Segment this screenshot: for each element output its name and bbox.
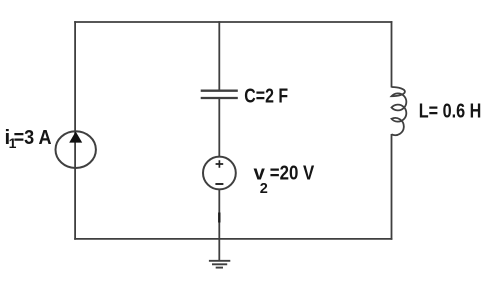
wire left — [74, 21, 76, 240]
svg-text:2: 2 — [260, 181, 268, 197]
wire right upper — [391, 21, 393, 87]
svg-text:L= 0.6 H: L= 0.6 H — [419, 99, 482, 122]
plus sign — [216, 160, 224, 168]
svg-text:C=2 F: C=2 F — [244, 85, 288, 108]
inductor L coil — [392, 87, 407, 135]
ground — [209, 261, 230, 268]
wire middle lower — [218, 190, 220, 261]
svg-text:=3 A: =3 A — [14, 126, 52, 149]
svg-text:=20 V: =20 V — [270, 161, 315, 184]
current source arrow — [69, 132, 82, 143]
wire bottom — [74, 238, 392, 240]
wire middle between capacitor and source — [218, 99, 220, 158]
minus sign — [215, 183, 223, 185]
wire top — [74, 21, 392, 23]
capacitor C plate bottom — [201, 97, 238, 99]
wire right lower — [391, 134, 393, 240]
wire middle upper — [218, 21, 220, 90]
wire middle overlap segment — [218, 213, 220, 223]
current source I1 — [55, 131, 95, 168]
capacitor C plate top — [201, 90, 238, 92]
voltage source V2 — [203, 157, 236, 190]
